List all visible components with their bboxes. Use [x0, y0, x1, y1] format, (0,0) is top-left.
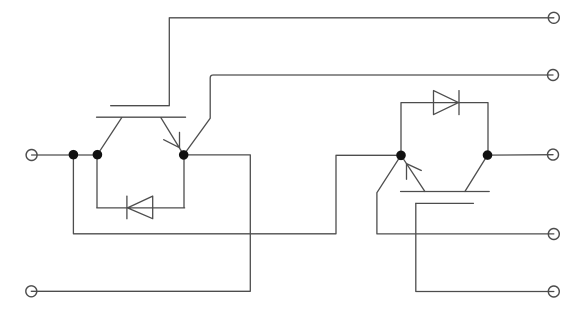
terminal 4	[548, 229, 559, 240]
terminal 1 (top right)	[548, 12, 559, 23]
transistor Q1 body bar	[97, 116, 186, 118]
transistor Q2 left leg (emitter)	[401, 155, 425, 191]
transistor Q1 emitter arrow barb vertical	[179, 132, 181, 147]
transistor Q2 emitter arrow barb diagonal	[407, 164, 422, 171]
diode D2 triangle	[434, 91, 459, 115]
terminal 2	[548, 70, 559, 81]
terminal 3	[548, 149, 559, 160]
node N1	[69, 150, 79, 160]
wire node N2 down to diode D1 row	[96, 155, 98, 208]
wire terminal 2 to node N3 (aux emitter Q1)	[184, 75, 553, 155]
diode D1 cathode bar	[126, 196, 128, 219]
transistor Q2 body bar	[401, 191, 490, 193]
wire node N4 aux emitter to terminal 4	[377, 155, 554, 234]
transistor Q1 right leg (emitter)	[161, 117, 184, 155]
wire node N3 down to diode D1 row	[183, 155, 185, 208]
node N3	[179, 150, 189, 160]
terminal 5 (bottom right)	[548, 286, 559, 297]
wire diode D2 branch over Q2	[401, 103, 488, 156]
diode D2 cathode bar	[458, 91, 460, 115]
wire node N3 right, down and to bottom-left terminal	[31, 155, 250, 291]
wire gate of Q1 to top terminal	[111, 18, 554, 106]
transistor Q1 emitter arrow barb diagonal	[164, 140, 180, 148]
wire node N1 down across and up to node N4	[73, 155, 401, 234]
wire gate of Q2 to bottom-right terminal	[416, 203, 554, 291]
wire node N5 to terminal 3	[488, 154, 554, 156]
terminal bottom left	[26, 286, 37, 297]
node N4	[396, 151, 406, 161]
transistor Q2 emitter arrow barb vertical	[406, 164, 408, 180]
transistor Q2 gate bar	[416, 202, 474, 204]
diode D1 triangle	[128, 196, 153, 219]
node N2	[93, 150, 103, 160]
transistor Q1 left leg	[97, 117, 122, 155]
wire diode D1 bottom row	[97, 207, 185, 209]
node N5	[483, 150, 493, 160]
wire left terminal to node N2	[32, 154, 98, 156]
terminal left (collector input)	[26, 150, 37, 161]
transistor Q2 right leg	[465, 155, 488, 191]
